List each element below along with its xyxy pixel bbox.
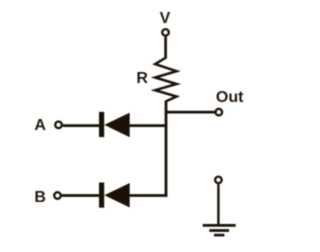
svg-text:R: R: [136, 70, 148, 87]
ground bar 2: [209, 229, 229, 232]
ground bar 1: [203, 224, 236, 227]
terminal B: [54, 192, 61, 199]
wire node to Out: [165, 111, 215, 114]
terminal ground: [215, 177, 222, 184]
resistor R1: [155, 58, 177, 102]
svg-text:A: A: [34, 117, 46, 134]
terminal Out: [216, 109, 223, 116]
svg-text:V: V: [160, 10, 171, 27]
wire ground terminal to ground: [217, 184, 219, 225]
terminal V: [162, 29, 169, 36]
diode D2 cathode bar: [99, 183, 104, 208]
terminal A: [55, 122, 62, 129]
svg-text:B: B: [34, 189, 46, 206]
wire A to diode D1: [63, 124, 100, 127]
svg-text:Out: Out: [216, 89, 244, 106]
wire diode D1 to node: [129, 124, 167, 127]
diode D1 triangle: [104, 113, 129, 138]
wire resistor to node, node to B junction: [165, 101, 168, 197]
wire V to resistor: [164, 37, 167, 59]
wire B to diode D2: [62, 194, 100, 197]
wire diode D2 to node: [129, 194, 167, 197]
ground bar 3: [214, 234, 224, 237]
diode D1 cathode bar: [99, 112, 104, 137]
diode D2 triangle: [104, 183, 129, 208]
